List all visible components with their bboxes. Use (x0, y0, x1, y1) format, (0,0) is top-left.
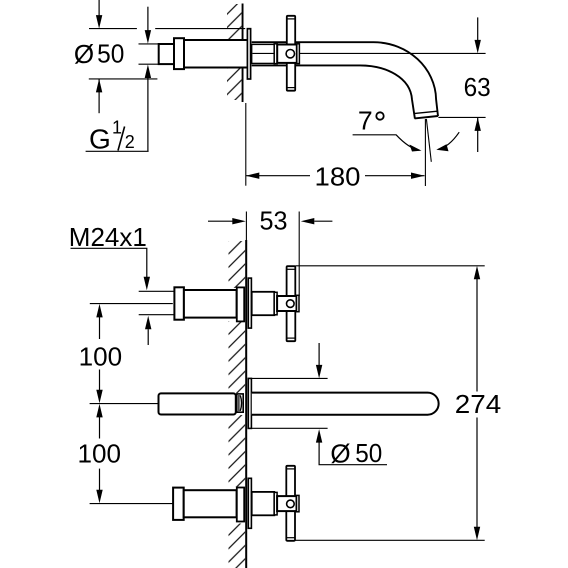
upper valve end cap (174, 287, 184, 319)
svg-text:M24x1: M24x1 (69, 222, 147, 252)
connection nipple G1/2 (159, 44, 174, 64)
dimension 100 (upper) arrows (96, 304, 102, 318)
M24x1 underline and leader (71, 248, 147, 277)
upper valve handle hub (277, 296, 296, 311)
svg-text:274: 274 (455, 389, 501, 419)
wall hatching bottom segment 2 (229, 321, 246, 393)
dimension 274 extension lines (296, 265, 485, 267)
upper valve hub end cap (297, 295, 300, 311)
dimension Ø50 arrows (98, 0, 100, 16)
7 degree leader and left arc (353, 135, 420, 151)
upper valve escutcheon (248, 278, 251, 328)
hub end cap (297, 44, 300, 64)
dimension 180 line and arrows (246, 175, 310, 177)
7 degree right arc (438, 132, 459, 149)
wall hatching top (upper segment) (227, 4, 242, 40)
upper valve stem (252, 292, 275, 315)
hub flange (274, 44, 277, 64)
dimension 180 left extension line (245, 103, 247, 186)
dimension 63 arrows (477, 17, 479, 41)
dimension 100 (lower) arrows (96, 404, 102, 418)
svg-text:Ø: Ø (74, 39, 94, 69)
svg-text:Ø: Ø (330, 438, 350, 468)
valve stem (252, 44, 275, 63)
concealed valve body (top view) (184, 40, 248, 68)
union flange ring (174, 38, 184, 69)
svg-text:53: 53 (260, 206, 288, 236)
hub screw circle (286, 50, 294, 58)
svg-text:100: 100 (79, 342, 123, 372)
dimension Ø50 (bottom) extension lines (252, 377, 328, 379)
G1/2 underline (86, 150, 149, 152)
M24 lower arrow (147, 329, 149, 345)
wall line (top view, upper part) (242, 4, 244, 41)
spout tube (side view) outer+inner edges (252, 42, 438, 116)
svg-text:1: 1 (112, 117, 122, 137)
vertical extension from outlet (424, 119, 426, 186)
spout escutcheon (bottom) (248, 378, 251, 428)
lower valve stem (252, 492, 275, 515)
lower valve hub flange (274, 492, 277, 515)
dimension 63 extension line (bottom) (438, 116, 485, 118)
wall hatching bottom segment 4 (229, 524, 246, 568)
53 extension line right (handle) (298, 212, 300, 297)
upper valve body (184, 290, 237, 318)
tube diameter stub extension lines (139, 43, 159, 45)
upper valve hub flange (274, 292, 277, 315)
dimension Ø50 (bottom) arrows (318, 343, 320, 366)
spout supply body behind wall (159, 393, 236, 414)
svg-text:100: 100 (78, 438, 122, 468)
svg-text:50: 50 (355, 438, 382, 468)
wall hatching bottom segment 1 (229, 241, 246, 288)
upper cross handle bar (287, 266, 296, 341)
dimension 53 right arrow (314, 220, 332, 222)
lower valve end cap (173, 488, 184, 520)
spout coupling at wall (237, 394, 243, 412)
spout aerator tip bottom edge (415, 116, 438, 118)
escutcheon (top view, on wall) (247, 29, 250, 79)
dimension Ø50 (escutcheon) extension lines (89, 28, 137, 30)
spout centerline (bottom) (90, 403, 159, 405)
centerline through stem (253, 52, 278, 54)
wall line (bottom view) (245, 240, 247, 568)
lower valve wall collar (237, 488, 244, 522)
upper valve M24 stub extension lines (139, 290, 175, 292)
dimension 274 line and arrows (476, 279, 478, 392)
svg-text:G: G (89, 123, 111, 154)
svg-text:2: 2 (125, 132, 135, 152)
dimension 53 left arrow (208, 220, 233, 222)
svg-text:7: 7 (358, 106, 373, 136)
upper valve centerline (90, 303, 173, 305)
svg-text:63: 63 (464, 72, 491, 102)
lower valve hub end cap (297, 495, 300, 511)
lower cross handle bar (286, 466, 295, 541)
53 extension line left (wall) (245, 212, 247, 279)
water stream line (7 deg) (426, 119, 431, 162)
lower valve handle hub (277, 496, 296, 511)
handle hub (277, 45, 297, 63)
wall line (top view, lower part) (242, 68, 244, 103)
lower valve centerline (90, 503, 174, 505)
svg-text:180: 180 (315, 161, 361, 191)
spout aerator seam line (414, 111, 438, 113)
lower valve hub screw (287, 500, 295, 508)
spout bar (front view, capsule) (252, 393, 439, 415)
lower valve body (184, 490, 237, 517)
wall hatching top (lower segment) (227, 68, 242, 100)
centerline / 63-dim top extension line (300, 52, 486, 54)
cross handle bar (vertical) (287, 16, 295, 91)
lower valve escutcheon (248, 478, 251, 528)
wall hatching bottom segment 3 (229, 415, 246, 487)
upper valve wall collar (237, 287, 244, 321)
upper valve hub screw (287, 300, 295, 308)
svg-text:50: 50 (97, 39, 124, 69)
tube diameter arrows / G1/2 leader (147, 7, 149, 31)
